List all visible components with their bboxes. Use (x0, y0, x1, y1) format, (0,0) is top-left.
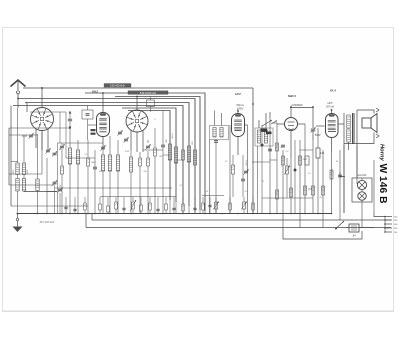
component R7 on ground bus (84, 203, 87, 210)
wire nested loop 1 (85, 93, 205, 211)
wire V1 bottom leads (41, 131, 43, 151)
coupling capacitor C20 (311, 128, 316, 130)
speaker LS1 (362, 118, 371, 128)
wire R2 leads (87, 140, 89, 158)
coil L2b (22, 179, 25, 192)
coil L1a antenna (16, 163, 19, 175)
component P1 bottom middle (215, 202, 218, 209)
component R13 on ground bus (182, 204, 185, 211)
component C10 on ground bus (64, 206, 67, 208)
wire link y191 right part (47, 191, 57, 193)
wire loop drop x200 (199, 97, 201, 214)
svg-text:Horny: Horny (379, 144, 385, 162)
resistor R31 (299, 156, 302, 165)
wire vertical x291 under V5 (290, 158, 292, 213)
svg-text:145: 145 (320, 152, 325, 155)
component C11 on ground bus (73, 208, 76, 210)
component R10 on ground bus (132, 202, 135, 209)
ground bus main (17, 213, 333, 215)
resistor R33 (290, 188, 293, 197)
wire V3 bottom leads (136, 132, 138, 152)
wire L8 leads (109, 136, 111, 155)
wire nested loop 6 (122, 108, 176, 202)
wire terminal feed (384, 217, 386, 233)
tube V2 side-view (97, 113, 110, 137)
ground symbol main (17, 214, 19, 219)
wire link y135 left (9, 134, 38, 136)
wire speaker terminals (357, 110, 374, 114)
wire nested loop 5 (13, 106, 183, 205)
wire vertical x277 (276, 123, 278, 213)
wire mid link y188 (55, 187, 172, 189)
component R8 on ground bus (99, 204, 102, 210)
tube V1 octode KK2 (31, 108, 54, 131)
wire vertical x66 upper (65, 112, 67, 158)
svg-text:462-4: 462-4 (171, 133, 174, 139)
wire L8b leads (117, 140, 119, 155)
wire into V2 left (88, 124, 97, 126)
wire nested loop 2 (115, 97, 200, 211)
junction dot x253 top (252, 103, 254, 105)
wire V2 bottom lead (102, 137, 104, 151)
pilot lamp box (352, 178, 372, 202)
trimmer C18 near T3 (118, 131, 122, 133)
trimmer C2 at V3 (124, 138, 128, 140)
svg-text:KK2: KK2 (92, 90, 98, 94)
wire link y174 (9, 173, 42, 175)
wire vertical x344 transformer (343, 145, 345, 213)
svg-text:0,1: 0,1 (180, 185, 183, 187)
wire vertical x42 (41, 132, 43, 174)
wire link y206 (11, 205, 88, 207)
wire coil rung y155 (163, 154, 170, 156)
capacitor C33 electrolytic (294, 169, 297, 172)
detector cap dark blob 1 (261, 129, 268, 132)
mains switch S1 (336, 221, 344, 229)
coil L8 (108, 155, 111, 171)
capacitor C8 (161, 144, 165, 146)
diode arrow at V5 input (271, 121, 277, 125)
component R20 bottom middle (202, 203, 205, 210)
coil L12 (187, 146, 190, 162)
component R21 bottom middle (229, 203, 232, 210)
label bar range 2 (128, 91, 168, 95)
wire link y112 left (30, 111, 66, 113)
resistor R6b (182, 150, 185, 160)
wire V4 top lead (237, 110, 239, 114)
wire L5 leads (69, 128, 71, 148)
svg-text:2x0,22A: 2x0,22A (357, 174, 367, 177)
voltage selector terminals (385, 216, 392, 218)
wire vertical x300 (299, 140, 301, 228)
junction dots on ground bus (17, 213, 19, 215)
bias resistor R40 (316, 148, 320, 158)
wire link y143 (58, 142, 104, 144)
wire IFT2 top link (258, 120, 260, 128)
wire V5 leads (290, 107, 292, 118)
wire L10 leads (169, 111, 171, 145)
wire R1 bottom (61, 174, 63, 213)
junction dot antenna bus (41, 87, 43, 89)
wire loop drop x205 (204, 93, 206, 213)
wire V4 bottom lead (237, 137, 239, 156)
wire vertical x305 (304, 124, 306, 213)
wire L3 leads (37, 134, 39, 179)
output transformer TR1 (347, 115, 351, 128)
trimmer C2b (53, 152, 57, 154)
wire vertical x374 (373, 160, 375, 213)
wire R3 leads (139, 152, 141, 158)
trimmer C17 lower left (58, 188, 62, 190)
wire V5 top loop (290, 108, 313, 129)
wire bottom bus 2 (92, 219, 391, 221)
wire bottom right box (283, 228, 362, 240)
svg-text:ZF=128 kHz: ZF=128 kHz (39, 220, 55, 224)
wire bottom bus 3 (86, 227, 391, 229)
component R11 on ground bus (149, 203, 152, 210)
resistor R32 (276, 190, 279, 199)
wire IFT1 leads (214, 111, 216, 126)
svg-text:307mA: 307mA (326, 105, 334, 109)
resistor R4 (147, 158, 150, 166)
wire vertical x318 upper (317, 128, 319, 140)
wire lamp leads (361, 190, 363, 192)
trimmer C1 at V1 (29, 134, 33, 136)
wire link y161 far left (11, 161, 18, 163)
component C13 on ground bus (122, 207, 125, 209)
coil L6 (76, 150, 79, 164)
wire L12 leads (188, 103, 190, 147)
capacitor C4 (93, 166, 97, 168)
wire vertical x230 (229, 125, 231, 213)
wire link y150 mid (143, 149, 163, 151)
wire heater feed to lamps (356, 144, 358, 179)
wire vertical x357 speaker return (356, 145, 358, 184)
wire L6 leads (77, 140, 79, 150)
svg-text:0,1: 0,1 (320, 197, 323, 199)
volume potentiometer P2 (286, 166, 289, 174)
wire L9 leads (130, 150, 132, 157)
wire V6 leads (331, 109, 333, 114)
svg-text:NBC1: NBC1 (288, 94, 296, 98)
svg-text:W 146 B: W 146 B (377, 164, 388, 204)
component R12 on ground bus (165, 204, 168, 210)
svg-text:HF5: HF5 (328, 101, 333, 105)
IF transformer IFT1 (210, 126, 229, 140)
wire link y160 right (270, 159, 277, 161)
wire link y162 (252, 161, 270, 163)
component C15 on ground bus (156, 208, 159, 210)
resistor R30 (282, 156, 285, 165)
tuning capacitor CV1 (60, 145, 64, 147)
wire nested loop 4 (25, 103, 189, 207)
component R9 on ground bus (115, 202, 118, 209)
trimmer C6b (101, 146, 105, 148)
tube V3 mixer octode (126, 110, 148, 132)
component C16 on ground bus (172, 207, 175, 209)
component C22 bottom middle (243, 202, 246, 209)
wire vertical x57 (57, 143, 59, 213)
coil L13 (193, 150, 196, 165)
component C21 bottom middle (208, 204, 211, 206)
wire link y128 left (9, 127, 70, 129)
wire L2 leads (23, 136, 25, 163)
tube V4 IF amplifier (232, 114, 245, 137)
component C14 on ground bus (140, 205, 143, 211)
tube V5 demod triode KBC1 (285, 118, 298, 131)
resistor R35 (312, 186, 315, 195)
wire link y198 right (262, 197, 313, 199)
resistor R1 (61, 166, 64, 174)
trimmer C2a (46, 149, 50, 151)
trimmer C7 (146, 145, 150, 147)
wire top antenna bus (23, 87, 253, 89)
component C19 on ground bus (193, 207, 196, 209)
wire x270 upper (269, 112, 271, 118)
svg-text:RL4: RL4 (330, 89, 336, 93)
trimmer C2c (53, 181, 57, 183)
wire link y150 right2 (300, 149, 313, 151)
wire vertical x323 (322, 150, 324, 228)
wire nested loop 3 (18, 99, 195, 209)
wire antenna feed down (17, 100, 19, 108)
coil L5 (68, 148, 71, 164)
wire left vertical x27 (26, 103, 28, 113)
ballast resistor RB (349, 224, 359, 232)
svg-text:0,1: 0,1 (262, 181, 265, 183)
wire vertical x331 under V6 (331, 152, 333, 213)
capacitor C31 (268, 148, 272, 150)
capacitor blob left of V2 (91, 129, 96, 131)
coil L3 bandfilter (36, 179, 39, 191)
wire coil rung y160 (176, 159, 183, 161)
resistor R39 under V6 bias (330, 170, 333, 179)
paper bottom edge shading (2, 310, 394, 312)
wire bus3 left drop (85, 213, 87, 228)
wire link y195 middle (202, 195, 224, 197)
wire V4 side leads (245, 124, 248, 126)
wire left vertical x11 (10, 106, 12, 207)
wire mid link y196 (100, 196, 176, 198)
resistor R2 (87, 158, 90, 166)
coil L8b (116, 155, 119, 171)
wire R6b leads (182, 106, 184, 151)
resistor R5 (154, 148, 157, 156)
wire L7 leads (102, 150, 104, 155)
wire mid link y185 left (9, 184, 55, 186)
components under V4 (232, 165, 235, 174)
wire bus2 left drop (91, 213, 93, 220)
wire bracket at transformer return (340, 172, 345, 177)
coil L11 (174, 147, 177, 163)
wire V1 top lead (41, 88, 43, 108)
wire vertical x47 (46, 158, 48, 213)
component C12 on ground bus (107, 206, 110, 212)
svg-text:150-415 kHz: 150-415 kHz (110, 84, 125, 88)
wire vertical x270 (269, 118, 271, 213)
tube V6 output pentode KL4 (326, 114, 339, 138)
resistor R3 (139, 158, 142, 166)
wire L11 leads (175, 108, 177, 147)
capacitor C34 electrolytic (261, 144, 264, 147)
label bar range 1 (104, 84, 131, 88)
capacitor C30 (338, 174, 342, 176)
antenna A1 (11, 80, 26, 87)
resistor R38 (276, 143, 279, 151)
coil L2a (22, 163, 25, 175)
coil L7 oscillator (101, 155, 104, 171)
svg-text:1000: 1000 (13, 169, 15, 174)
svg-text:162-4: 162-4 (245, 160, 248, 166)
wire vertical x60 upper (59, 112, 61, 143)
coil L9 (129, 157, 132, 172)
wire L1 leads (17, 108, 19, 163)
component R22 bottom middle (252, 203, 255, 210)
IF transformer IFT2 (255, 128, 273, 146)
resistor R36 (322, 186, 325, 195)
wire L2 bottom corner (24, 190, 57, 193)
trimmer C35 bottom (244, 170, 248, 172)
trimmer arrow on C20 (311, 127, 316, 133)
coil L10 (168, 144, 171, 160)
capacitor C32 (281, 144, 285, 146)
detector cap dark blob 2 (266, 132, 272, 135)
wire V2 top lead (102, 108, 104, 113)
oscillator pad box (147, 100, 155, 107)
wire vertical x257 (257, 146, 259, 213)
wire vertical x247 (247, 125, 249, 213)
wire vertical x340 (339, 150, 341, 220)
wire vertical x313 (312, 140, 314, 213)
wire vertical x283 (282, 150, 284, 228)
svg-text:HF2: HF2 (235, 92, 241, 96)
padder capacitor C6 (82, 110, 93, 119)
junction dots misc (102, 92, 104, 94)
wire transformer secondary (343, 113, 345, 213)
wire top bus right drop (252, 88, 254, 213)
trimmer C5 vertical (69, 111, 71, 118)
resistor R34 (304, 186, 307, 195)
svg-text:2x5000pF: 2x5000pF (290, 103, 303, 107)
detector diode arrows (262, 120, 272, 126)
wire L13 leads (194, 99, 196, 151)
wire V3 top lead (136, 97, 138, 111)
svg-text:0,1: 0,1 (85, 154, 88, 156)
coil L1b antenna (16, 179, 19, 192)
wire nested loop 7 (128, 111, 170, 201)
wire ballast leads (346, 227, 349, 229)
wire padder leads (87, 106, 89, 111)
svg-text:510-1620 kHz: 510-1620 kHz (140, 91, 157, 95)
pilot lamp LP2 (358, 192, 366, 200)
wire left outer vertical (8, 128, 10, 185)
resistor R37 grid leak (305, 156, 309, 165)
wire link y158 (66, 157, 95, 159)
pilot lamp LP1 (357, 180, 366, 189)
